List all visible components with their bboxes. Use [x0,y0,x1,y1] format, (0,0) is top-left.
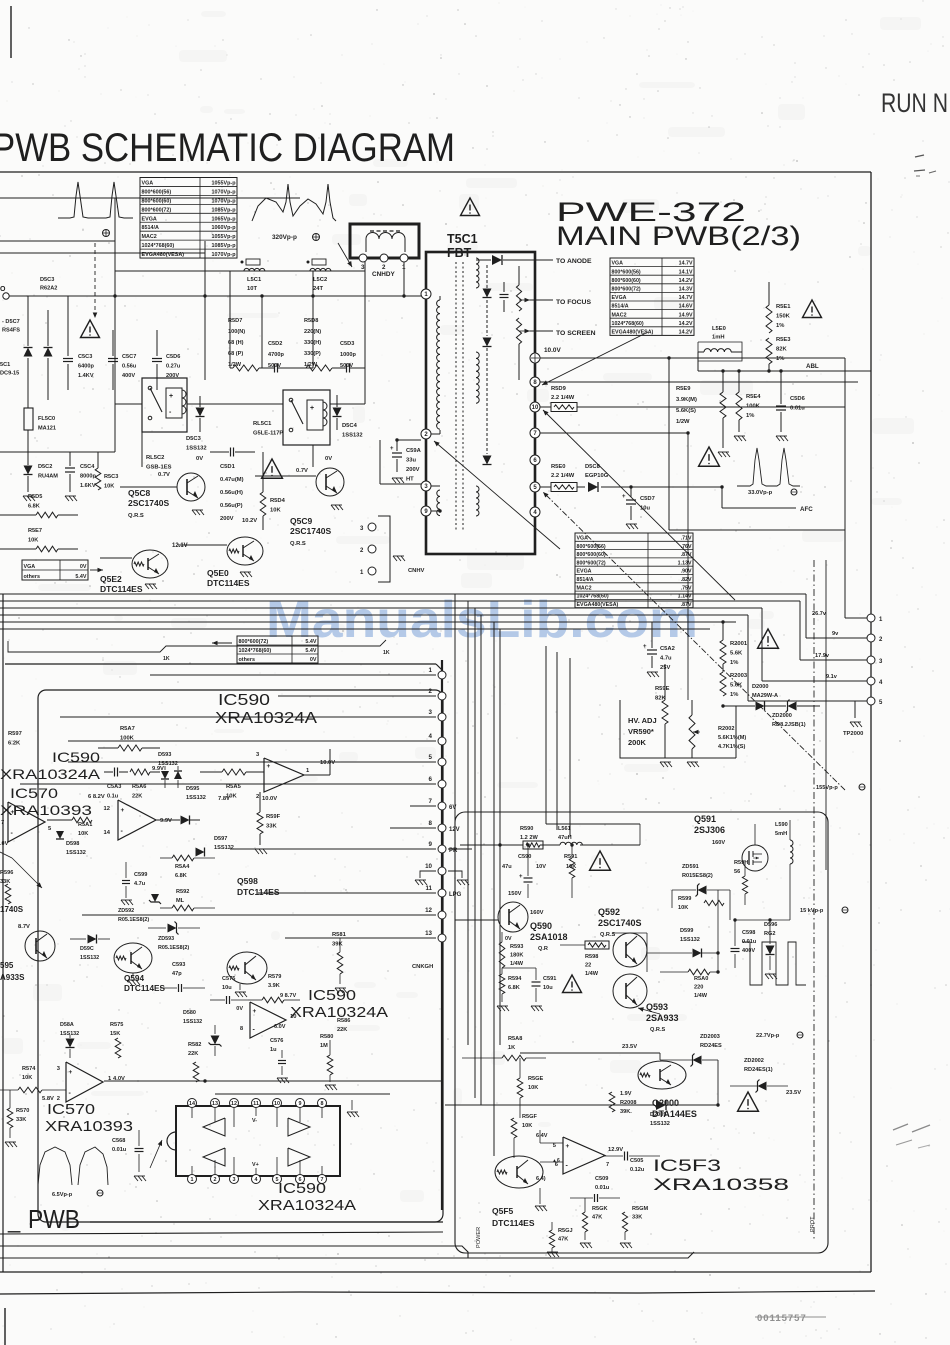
svg-text:8.7V: 8.7V [18,924,30,930]
svg-text:1SS132: 1SS132 [80,955,99,961]
svg-text:0.1u: 0.1u [107,794,119,800]
svg-text:1065Vp-p: 1065Vp-p [212,216,237,222]
svg-text:VGA: VGA [612,261,624,267]
svg-text:C593: C593 [172,962,185,968]
svg-text:4: 4 [429,733,433,740]
svg-text:D5C8: D5C8 [585,464,601,470]
svg-text:1/4W: 1/4W [694,993,708,999]
svg-text:6400p: 6400p [78,364,94,370]
svg-text:22K: 22K [188,1051,198,1057]
svg-text:1070Vp-p: 1070Vp-p [212,189,237,195]
svg-text:3.9K: 3.9K [268,983,280,989]
svg-text:10: 10 [425,863,432,870]
FBT secondary winding bottom [476,486,479,516]
vertical wire x=262 [261,296,263,368]
warning triangle right 2 [699,447,720,466]
svg-text:100K: 100K [120,736,135,742]
wire y=467 relay bottoms [27,466,29,468]
capacitor C5C4 8000p 1.6KV [65,467,75,469]
svg-text:47K: 47K [592,1215,602,1221]
svg-text:MAC2: MAC2 [142,234,157,240]
arrow long to FBT pin10 [543,410,735,600]
svg-text:1: 1 [191,1177,194,1183]
transistor Q5E2 (digital) [132,550,168,578]
svg-text:TO ANODE: TO ANODE [556,258,592,265]
corner mark top-left [10,6,12,58]
svg-text:22: 22 [585,963,591,969]
wire verticals caps row [67,296,69,356]
svg-text:.82V: .82V [681,577,692,583]
svg-text:14.2V: 14.2V [679,330,693,336]
FBT pin 2 [421,429,431,439]
svg-text:6.4): 6.4) [536,1176,546,1182]
svg-text:EGP10G: EGP10G [585,473,609,479]
svg-text:R5E9: R5E9 [676,386,691,392]
ground Q5C9 [331,505,335,510]
FBT right pin (top) [530,353,540,363]
border right vertical [870,172,872,1272]
svg-text:RS4FS: RS4FS [2,328,20,334]
svg-text:Q5F5: Q5F5 [492,1206,514,1216]
svg-text:12.9V: 12.9V [608,1147,623,1153]
svg-text:C5A3: C5A3 [107,784,121,790]
svg-text:1060Vp-p: 1060Vp-p [212,225,237,231]
svg-text:R5D5: R5D5 [28,494,42,500]
svg-text:+: + [622,494,626,500]
vertical wire x=205 [204,241,206,380]
svg-text:R5D8: R5D8 [304,318,318,324]
FBT rectifier diode mid [483,338,492,347]
svg-text:D580: D580 [183,1010,196,1016]
op-amp IC5F3 [563,1137,605,1174]
FBT primary lower winding [437,490,440,516]
svg-text:R5A6: R5A6 [132,784,146,790]
svg-text:800*600(60): 800*600(60) [612,278,641,284]
wire under PWB [90,1221,443,1223]
svg-text:C509: C509 [595,1176,608,1182]
svg-text:5.6K: 5.6K [730,683,743,689]
svg-text:6: 6 [429,776,433,783]
svg-text:1SS132: 1SS132 [342,433,363,439]
svg-text:Q.R: Q.R [538,946,548,952]
svg-text:ZD593: ZD593 [158,936,174,942]
capacitor C5A3 0.1u [114,768,116,777]
svg-text:Q.R.S: Q.R.S [128,513,144,519]
svg-text:Q.R.S: Q.R.S [290,541,306,547]
svg-text:R5E0: R5E0 [551,464,566,470]
svg-text:TO SCREEN: TO SCREEN [556,330,596,337]
svg-text:1K: 1K [383,650,390,656]
svg-text:220(N): 220(N) [304,329,321,335]
resistor R5A5 10K [222,769,246,775]
FBT core dashed lines [455,262,457,532]
warning triangle q593 [563,975,582,993]
svg-text:POWER: POWER [476,1227,482,1248]
transistor Q5F5 (digital) [495,1156,543,1188]
resistor R591 vertical [569,858,575,878]
svg-text:10K: 10K [270,508,281,514]
FBT screen tap [519,330,530,332]
svg-text:XRA10358: XRA10358 [653,1175,789,1194]
svg-text:R5GE: R5GE [528,1076,544,1082]
svg-text:ZD591: ZD591 [682,864,699,870]
svg-text:0V: 0V [325,456,332,462]
svg-text:5.6K1%(M): 5.6K1%(M) [718,735,746,741]
svg-text:0V: 0V [196,456,203,462]
wire C59A to FBT [397,439,421,441]
table small modes 5.4V [237,636,318,663]
svg-text:11: 11 [253,1101,259,1107]
vertical wire x=230 [229,271,231,368]
wire hv adj box [620,700,736,758]
svg-text:XRA10393: XRA10393 [45,1118,133,1135]
svg-text:IC5F3: IC5F3 [653,1156,721,1175]
FBT pin 5 [530,482,540,492]
svg-text:12.1V: 12.1V [172,543,188,549]
svg-text:VGA: VGA [577,535,589,541]
svg-text:15K: 15K [110,1031,120,1037]
svg-text:5mH: 5mH [775,831,787,837]
ground Q598 [235,992,239,997]
transistor Q595 partial left [25,931,55,961]
svg-text:D599: D599 [680,928,693,934]
svg-text:EVGA: EVGA [577,569,592,575]
svg-text:L5E0: L5E0 [712,326,726,332]
svg-text:1M: 1M [320,1043,328,1049]
svg-text:7: 7 [1,820,4,826]
svg-text:R5C3: R5C3 [104,474,118,480]
svg-text:800*600(72): 800*600(72) [612,287,641,293]
connector CNKGH pins 1-13 [438,671,446,679]
svg-text:33K: 33K [0,879,10,885]
svg-text:IC590: IC590 [218,692,270,709]
svg-text:400V: 400V [122,373,135,379]
svg-text:AFC: AFC [800,506,813,513]
svg-text:0.56u: 0.56u [122,364,137,370]
svg-text:10K: 10K [522,1123,532,1129]
resistor R5D4 10K [260,492,266,516]
transistor Q590 [498,902,528,932]
svg-text:1SS132: 1SS132 [650,1121,670,1127]
svg-text:1085Vp-p: 1085Vp-p [212,243,237,249]
svg-text:14.2V: 14.2V [679,278,693,284]
svg-text:6V: 6V [449,805,456,811]
svg-text:C5D2: C5D2 [268,341,282,347]
wire opamp out [304,774,330,776]
svg-text:00115757: 00115757 [757,1313,807,1324]
FBT pin 4 [530,507,540,517]
IC590 package internal wires [191,1108,193,1118]
warning triangle mid-left [81,320,100,338]
svg-text:R2001: R2001 [730,641,748,647]
svg-text:12V: 12V [449,827,460,833]
ground Q594 [128,980,132,985]
svg-text:10K: 10K [78,831,88,837]
connector CNHV pins [368,523,376,531]
svg-text:180K: 180K [510,953,523,959]
svg-text:RU4AM: RU4AM [38,474,58,480]
svg-text:R598: R598 [585,954,598,960]
capacitor C505 0.12u [624,1152,626,1161]
svg-text:1SS132: 1SS132 [186,795,206,801]
wire power feed y=845 [460,844,523,846]
svg-text:10.0V: 10.0V [544,347,561,354]
svg-text:ABL: ABL [806,363,819,370]
svg-text:.71V: .71V [681,535,692,541]
IC590 package internal op-amps [203,1118,225,1136]
svg-text:5.4V: 5.4V [305,648,316,654]
wire y=253 upper bus [0,252,205,254]
svg-text:3.9K(M): 3.9K(M) [676,397,697,403]
capacitor C5C3 6400p 1.4KV [67,345,69,352]
svg-text:14.7V: 14.7V [679,261,693,267]
svg-text:TO FOCUS: TO FOCUS [556,299,591,306]
transistor Q593 [613,974,647,1008]
svg-text:100(N): 100(N) [228,329,245,335]
wire region verticals mid [454,594,456,1045]
ground near CNHV [393,556,397,561]
svg-text:33.0Vp-p: 33.0Vp-p [748,490,773,496]
svg-text:D5C4: D5C4 [342,423,358,429]
svg-text:9: 9 [299,1101,302,1107]
svg-text:5.4V: 5.4V [75,574,86,580]
wires from pins leftward [150,674,436,676]
transistor Q5C9 [316,468,344,496]
resistor R5E1 150K 1% [766,305,772,333]
svg-text:.87V: .87V [681,552,692,558]
vertical wire x=365 from CNHDY [364,258,366,296]
svg-text:EVGA: EVGA [142,216,157,222]
op-amp U1a IC590 [264,758,304,792]
svg-text:2: 2 [256,794,259,800]
svg-text:4700p: 4700p [268,352,284,358]
arrow q593 [638,1008,660,1014]
svg-text:+: + [519,874,523,880]
svg-text:C576: C576 [270,1038,283,1044]
svg-text:R2003: R2003 [730,673,748,679]
svg-text:FL5C0: FL5C0 [38,416,55,422]
svg-text:6 8.2V: 6 8.2V [88,794,105,800]
svg-text:CNHDY: CNHDY [372,271,395,278]
wire region verticals mid right [545,646,547,824]
resistor R5A6 22K [130,769,150,775]
fuse FL5C0 MA121 [24,408,33,430]
svg-text:1: 1 [429,667,433,674]
svg-text:0V: 0V [80,564,87,570]
svg-text:10u: 10u [640,506,650,512]
svg-text:HV. ADJ: HV. ADJ [628,716,657,725]
svg-text:R594: R594 [508,976,522,982]
svg-text:14.1V: 14.1V [679,269,693,275]
svg-text:D593: D593 [158,752,171,758]
svg-text:1.6KV: 1.6KV [80,483,96,489]
svg-text:D596: D596 [764,922,777,928]
wire CNHDY pin1 down [403,262,405,296]
arrow dash-dot to FBT pin5 [543,492,845,790]
resistor R2003 5.6K 1% [720,672,726,696]
svg-text:1SS132: 1SS132 [66,850,86,856]
svg-text:MAC2: MAC2 [577,585,592,591]
svg-text:C568: C568 [112,1138,125,1144]
resistor R598 22 1/4W [585,941,609,949]
svg-text:14.9V: 14.9V [679,312,693,318]
svg-text:R2002: R2002 [718,726,734,732]
svg-text:1055Vp-p: 1055Vp-p [212,234,237,240]
svg-text:0.01u: 0.01u [790,406,805,412]
svg-text:+: + [69,1069,73,1076]
wire AFC corner [721,487,723,508]
svg-text:R5A0: R5A0 [694,976,708,982]
ground VR590 [687,762,691,767]
svg-text:6.5Vp-p: 6.5Vp-p [52,1192,73,1198]
box IC590 section [38,690,443,1222]
svg-text:320Vp-p: 320Vp-p [272,234,297,241]
wire bus line y=594 [0,593,806,595]
svg-text:Q593: Q593 [646,1002,668,1012]
table VGA 0V / others 5.4V [22,560,88,580]
svg-text:C5A2: C5A2 [660,646,675,652]
svg-text:1u: 1u [270,1047,277,1053]
svg-text:10V: 10V [536,864,546,870]
svg-text:23.5V: 23.5V [786,1090,801,1096]
svg-text:9.9V: 9.9V [160,818,172,824]
FBT pin 6 [530,455,540,465]
svg-text:2SC1740S: 2SC1740S [290,526,331,536]
svg-text:+: + [390,446,394,452]
svg-text:0V: 0V [236,1006,243,1012]
wire pin7 line y=433 [540,432,688,434]
svg-text:D59C: D59C [80,946,94,952]
svg-text:6.8K: 6.8K [508,985,520,991]
svg-text:R5E1: R5E1 [776,304,791,310]
svg-text:47u: 47u [502,864,512,870]
wire mid box bottom [215,1093,390,1095]
wire opamp IC5F3 leads [540,1142,563,1144]
svg-text:R5GK: R5GK [592,1206,608,1212]
svg-text:R5D7: R5D7 [228,318,242,324]
svg-text:D5C3: D5C3 [40,277,54,283]
bus corner verticals to connector pins [805,594,807,638]
svg-text:68 (H): 68 (H) [228,340,244,346]
svg-text:2.2 1/4W: 2.2 1/4W [551,395,575,401]
op-amp IC570 (3/2/1) [66,1062,103,1102]
svg-text:.75V: .75V [681,585,692,591]
wire 10.0V line y=358 [540,357,845,359]
waveform square wave [742,942,806,985]
svg-text:1070Vp-p: 1070Vp-p [212,252,237,258]
svg-text:8: 8 [321,1101,324,1107]
warning triangle Q2000 [738,1092,759,1111]
svg-text:L561: L561 [558,826,571,832]
svg-text:9: 9 [429,841,433,848]
wire snubber row [230,367,233,369]
svg-text:R592: R592 [176,889,189,895]
relay RL5C1 box [283,390,330,445]
svg-text:0.01u: 0.01u [595,1185,610,1191]
svg-text:Q5C8: Q5C8 [128,488,150,498]
svg-text:DTC114ES: DTC114ES [124,984,165,993]
inductor L5C1 10T [241,261,244,264]
svg-text:+: + [253,1008,257,1015]
svg-text:1.9V: 1.9V [620,1091,632,1097]
svg-text:8514/A: 8514/A [142,225,159,231]
wire top bus y=198 [0,197,300,199]
svg-text:10: 10 [274,1101,280,1107]
svg-text:R59F: R59F [266,814,281,820]
svg-text:1085Vp-p: 1085Vp-p [212,207,237,213]
test point TP2000 [854,701,856,718]
FBT secondary winding middle [476,352,479,403]
svg-text:MA121: MA121 [38,426,56,432]
svg-text:6.8K: 6.8K [28,504,40,510]
svg-text:C5C4: C5C4 [80,464,95,470]
svg-text:22K: 22K [132,794,142,800]
arrow from mini table [90,569,103,571]
svg-text:ZD2000: ZD2000 [772,713,792,719]
smudge marks lower right [893,1124,908,1130]
svg-text:0.12u: 0.12u [630,1167,645,1173]
svg-text:R5E3: R5E3 [776,337,791,343]
svg-text:+: + [310,405,314,412]
svg-text:1%: 1% [730,660,738,666]
svg-text:C5D1: C5D1 [220,464,236,470]
svg-text:R5A4: R5A4 [175,864,190,870]
svg-text:68 (P): 68 (P) [228,351,243,357]
ground R5E4 [738,420,740,432]
svg-text:1/4W: 1/4W [510,961,524,967]
op-amp U2a IC570 (7/5) [8,802,45,842]
connector CNHDY box [350,224,419,258]
wire main horizontal y=296 to FBT pin1 [9,295,421,297]
transistor Q2000 (digital) [638,1061,686,1089]
svg-text:R586: R586 [337,1018,350,1024]
polarity symbol for left waveform [103,230,110,237]
svg-text:330(H): 330(H) [304,340,321,346]
svg-text:ML: ML [176,898,185,904]
FBT pin 1 [421,289,431,299]
svg-text:0.27u: 0.27u [166,364,181,370]
FBT pin 9 [421,506,431,516]
border top horizontal [0,171,871,173]
svg-text:.90V: .90V [681,569,692,575]
svg-text:C5C7: C5C7 [122,354,136,360]
svg-text:C505: C505 [630,1158,643,1164]
svg-text:C590: C590 [518,854,531,860]
svg-text:1.4KV: 1.4KV [78,373,94,379]
capacitor C5D1 coupling [230,448,232,457]
diode D59C 1SS132 [88,935,97,944]
svg-text:800*600(72): 800*600(72) [577,560,606,566]
vertical wire x=313 [312,271,314,368]
arrow sweep fail [12,858,42,888]
ground C59A [392,478,396,483]
svg-text:5: 5 [429,754,433,761]
svg-text:1mH: 1mH [712,335,725,341]
svg-text:33K: 33K [16,1117,26,1123]
svg-text:D5C2: D5C2 [38,464,52,470]
capacitor C5A2 4.7u 25V [647,649,657,651]
resistor R59F 33K [257,812,263,834]
resistor R5D7 [233,365,259,371]
diode pair vertical [24,348,33,357]
table FBT pin voltages (right) [610,258,694,335]
svg-text:5C1: 5C1 [0,362,10,368]
svg-text:1.13V: 1.13V [678,560,692,566]
wire y=271 L5C1/L5C2 feed [115,270,365,272]
ground C5D7 [626,524,630,529]
svg-text:1K: 1K [163,656,170,662]
svg-text:C5D6: C5D6 [790,396,806,402]
